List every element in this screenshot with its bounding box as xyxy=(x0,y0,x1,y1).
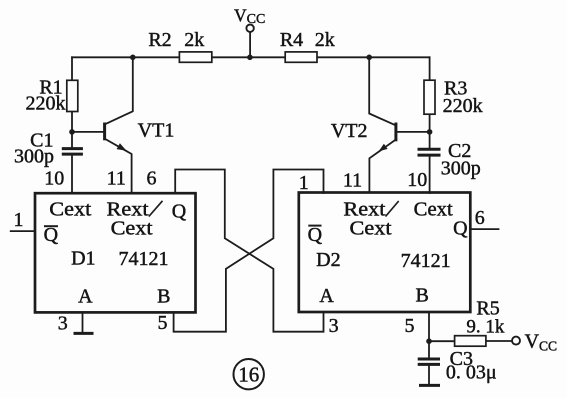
resistor R4 xyxy=(285,52,317,62)
svg-text:Cext: Cext xyxy=(49,199,91,221)
label D1 pin Rext/Cext xyxy=(107,199,163,240)
svg-text:11: 11 xyxy=(107,168,126,190)
resistor R3 xyxy=(424,80,435,114)
svg-text:0. 03μ: 0. 03μ xyxy=(446,361,497,383)
svg-text:Q: Q xyxy=(453,217,468,239)
wire C3 to ground xyxy=(428,365,430,385)
svg-text:74121: 74121 xyxy=(401,250,451,272)
svg-text:Q: Q xyxy=(172,201,187,223)
svg-text:Cext: Cext xyxy=(414,198,453,220)
wire R5 to Vcc terminal xyxy=(486,340,512,342)
wire C1 to pin 10 of D1 xyxy=(71,154,73,193)
svg-text:Q: Q xyxy=(308,224,323,246)
wire D1 pin3 to ground xyxy=(82,313,84,333)
svg-text:74121: 74121 xyxy=(119,248,169,270)
wire C2 to pin 10 of D2 xyxy=(429,155,431,193)
svg-text:300p: 300p xyxy=(441,158,481,180)
svg-text:1: 1 xyxy=(14,209,24,231)
resistor R5 xyxy=(455,336,486,347)
svg-text:Q: Q xyxy=(44,224,59,246)
svg-text:B: B xyxy=(416,285,429,307)
capacitor C3 xyxy=(418,359,440,364)
wire D1 pin5 B to D2 pin1 Qbar (cross coupling) xyxy=(174,170,324,332)
svg-text:B: B xyxy=(157,285,170,307)
Vcc terminal right xyxy=(512,337,520,345)
svg-text:2k: 2k xyxy=(184,29,204,51)
Vcc terminal top xyxy=(246,25,253,32)
node VT2 base / R3 / C2 xyxy=(427,129,433,135)
svg-text:Cext: Cext xyxy=(350,218,392,240)
wire Vcc stub xyxy=(249,32,251,58)
wire D1 pin1 input xyxy=(11,230,35,232)
svg-text:5: 5 xyxy=(158,312,168,334)
node D2 pin5 / R5 / C3 xyxy=(426,338,432,344)
node VT1 base / R1 / C1 xyxy=(69,129,75,135)
node VT2 collector on rail xyxy=(366,55,372,61)
svg-text:VT2: VT2 xyxy=(331,120,368,142)
IC D2 74121 box xyxy=(299,193,471,313)
wire D2 pin6 Q output xyxy=(471,228,499,230)
svg-text:VT1: VT1 xyxy=(138,120,175,142)
wire left column R1 branch xyxy=(71,57,73,148)
ground at D1 pin3 xyxy=(74,332,94,335)
svg-text:10: 10 xyxy=(407,169,427,191)
svg-text:220k: 220k xyxy=(26,93,66,115)
label D2 pin Qbar xyxy=(308,224,323,246)
node VT1 collector on rail xyxy=(130,55,136,61)
figure number 16 xyxy=(234,359,264,389)
svg-text:A: A xyxy=(78,285,93,307)
transistor VT1 xyxy=(105,57,133,193)
svg-text:3: 3 xyxy=(329,315,339,337)
svg-text:D2: D2 xyxy=(316,249,340,271)
svg-text:6: 6 xyxy=(475,207,485,229)
resistor R2 xyxy=(179,52,211,62)
svg-text:220k: 220k xyxy=(443,95,483,117)
wire top supply rail xyxy=(72,56,430,58)
transistor VT2 xyxy=(369,57,396,193)
node Vcc on rail xyxy=(247,55,253,61)
svg-text:R2: R2 xyxy=(148,29,171,51)
svg-text:1: 1 xyxy=(299,172,309,194)
svg-text:D1: D1 xyxy=(71,247,95,269)
svg-text:6: 6 xyxy=(147,168,157,190)
svg-text:11: 11 xyxy=(343,169,362,191)
svg-text:3: 3 xyxy=(58,313,68,335)
wire D2 pin5 to node B xyxy=(428,313,430,358)
junction node dots xyxy=(69,55,432,345)
resistor R1 xyxy=(67,80,78,111)
wire VT1 base xyxy=(72,131,103,133)
svg-text:10: 10 xyxy=(44,167,64,189)
wire right column R3 branch xyxy=(429,57,431,149)
capacitor C1 xyxy=(62,149,83,155)
svg-text:9. 1k: 9. 1k xyxy=(466,317,505,338)
wire D1 pin6 Q to D2 pin3 A (cross coupling) xyxy=(175,170,323,332)
svg-text:Cext: Cext xyxy=(111,218,153,240)
svg-text:2k: 2k xyxy=(315,29,335,51)
svg-text:5: 5 xyxy=(405,315,415,337)
wire node to R5 xyxy=(429,340,455,342)
svg-text:16: 16 xyxy=(238,362,259,386)
IC D1 74121 box xyxy=(35,193,196,312)
svg-text:A: A xyxy=(319,285,334,307)
svg-text:R4: R4 xyxy=(280,29,303,51)
label D2 pin Rext/Cext xyxy=(343,198,398,239)
label D1 pin Qbar xyxy=(44,224,59,246)
wire VT2 base xyxy=(397,131,430,133)
capacitor C2 xyxy=(418,149,441,155)
ground at C3 xyxy=(419,384,440,387)
svg-text:300p: 300p xyxy=(14,145,54,167)
